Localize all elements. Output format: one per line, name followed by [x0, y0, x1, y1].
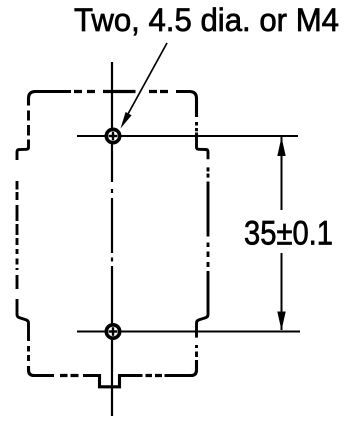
vertical centerline: [111, 62, 113, 416]
leader line to top hole: [128, 43, 167, 114]
outline bottom centre notch (solid): [83, 376, 143, 387]
outline top edge dashes: [74, 90, 168, 93]
outline right lower edge dashes: [195, 345, 198, 357]
top mounting hole: [106, 129, 119, 142]
outline top-right corner (solid run): [176, 92, 197, 118]
outline bottom edge dashes (left of notch): [60, 374, 79, 377]
dimension arrowhead top: [277, 137, 285, 156]
top hole center cross: [109, 135, 118, 137]
outline left lower step (solid): [17, 299, 29, 341]
top hole centerline / extension line: [77, 135, 298, 137]
outline bottom-left corner (solid run): [29, 366, 55, 376]
svg-text:Two, 4.5 dia. or M4: Two, 4.5 dia. or M4: [74, 2, 339, 38]
dimension arrowhead bottom: [277, 312, 285, 331]
bottom hole center cross: [109, 330, 118, 332]
panel cutout outline: top-left corner (solid run): [29, 92, 72, 106]
dimension line (vertical, broken for text): [281, 137, 283, 210]
bottom mounting hole: [106, 325, 119, 338]
outline left upper edge dashes: [27, 111, 30, 136]
outline left upper step (solid): [17, 140, 29, 161]
outline right upper step (solid): [197, 133, 209, 160]
outline bottom-right corner (solid run): [165, 360, 197, 376]
outline right lower step (solid): [197, 271, 209, 338]
leader arrowhead: [121, 112, 132, 129]
outline bottom edge dashes (right of notch): [146, 374, 163, 377]
svg-text:35±0.1: 35±0.1: [244, 215, 333, 253]
outline left lower edge dashes: [27, 346, 30, 361]
outline right outer edge dashes: [207, 167, 210, 267]
bottom hole centerline / extension line: [77, 331, 300, 333]
outline left outer edge dashes: [16, 181, 19, 289]
outline right upper edge dashes: [195, 122, 198, 131]
